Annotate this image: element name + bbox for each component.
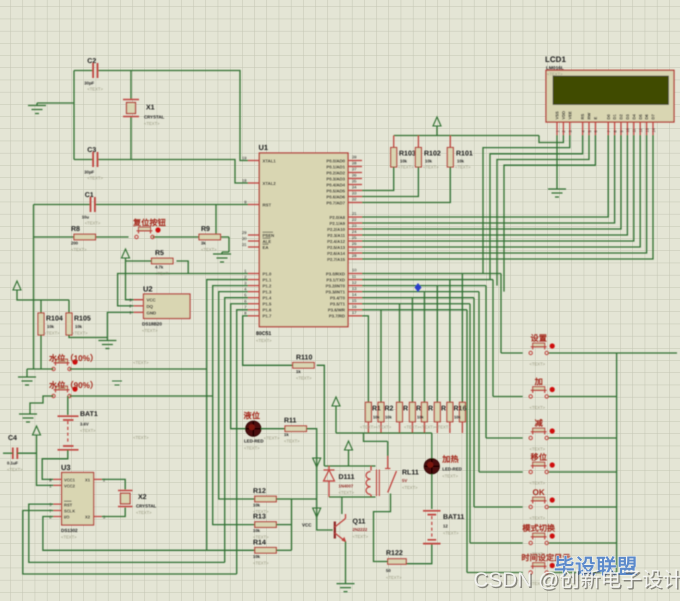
svg-text:10k: 10k (417, 415, 424, 420)
wire relay bottom rail (329, 496, 376, 498)
wire P1.5 to LED 液位 (231, 304, 248, 429)
svg-text:35: 35 (352, 179, 357, 184)
svg-text:P3.3/INT1: P3.3/INT1 (326, 289, 346, 294)
svg-text:移位: 移位 (531, 452, 547, 462)
svg-text:<TEXT>: <TEXT> (85, 221, 101, 226)
wire bus to LCD VDD (539, 135, 563, 143)
svg-text:R5: R5 (155, 250, 164, 257)
svg-text:P2.7/A15: P2.7/A15 (327, 257, 346, 262)
svg-text:OK: OK (533, 488, 545, 497)
svg-text:ALE: ALE (263, 239, 272, 244)
svg-text:P3.6/WR: P3.6/WR (328, 308, 346, 313)
svg-text:X2: X2 (138, 494, 147, 501)
svg-text:D2: D2 (619, 114, 624, 120)
wire crystal X1 branch (130, 71, 132, 100)
wire U2 DQ to P1.0 (118, 274, 248, 306)
svg-text:P0.1/AD1: P0.1/AD1 (326, 164, 345, 169)
svg-text:15: 15 (352, 298, 357, 303)
svg-text:R103: R103 (399, 151, 416, 158)
svg-text:R: R (403, 406, 408, 413)
svg-text:29: 29 (242, 230, 247, 235)
svg-text:BAT11: BAT11 (443, 514, 464, 521)
wire 10% left to ground (27, 368, 54, 370)
svg-text:7: 7 (607, 130, 611, 132)
svg-text:R101: R101 (456, 151, 473, 158)
wire button OK row (474, 506, 523, 508)
resistor R103 (393, 136, 395, 148)
svg-text:80C51: 80C51 (256, 331, 271, 337)
svg-text:R12: R12 (253, 488, 266, 495)
svg-text:16: 16 (352, 304, 357, 309)
ground left of BAT1 upper (18, 377, 36, 385)
svg-text:CRYSTAL: CRYSTAL (136, 504, 157, 509)
wire P3.3 to R5b and 移位 (362, 291, 479, 293)
relay contact (387, 441, 389, 456)
wire crystal X2 to U3 X2 pin (102, 508, 126, 517)
svg-text:12: 12 (443, 524, 448, 529)
svg-text:10k: 10k (457, 159, 465, 164)
push button 复位按钮 (135, 235, 138, 238)
svg-text:P1.7: P1.7 (263, 314, 272, 319)
svg-text:5V: 5V (402, 478, 407, 483)
svg-text:D0: D0 (606, 114, 611, 120)
svg-text:R122: R122 (386, 550, 403, 557)
arrow down lower (313, 508, 321, 517)
svg-text:17: 17 (352, 310, 357, 315)
svg-text:DQ: DQ (147, 304, 154, 309)
wire R102 to P0.6 (362, 167, 418, 197)
svg-text:X2: X2 (85, 515, 91, 520)
svg-text:3k: 3k (201, 241, 206, 246)
svg-text:EA: EA (263, 245, 269, 250)
svg-text:RST: RST (64, 502, 73, 507)
wire resistor bank bottom bus (336, 432, 432, 434)
svg-text:10: 10 (352, 268, 357, 273)
svg-text:D6: D6 (644, 114, 649, 120)
svg-text:R104: R104 (46, 316, 63, 323)
svg-text:<TEXT>: <TEXT> (201, 247, 217, 252)
svg-text:1k: 1k (296, 369, 301, 374)
svg-text:D7: D7 (651, 114, 656, 120)
svg-text:C4: C4 (8, 435, 17, 442)
svg-text:14: 14 (352, 292, 357, 297)
wire U2 GND to ground (107, 312, 133, 340)
capacitor C1 (91, 197, 95, 212)
wire P3.4 to R4 and OK button (362, 297, 474, 299)
wire relay top rail (348, 453, 350, 466)
svg-text:<TEXT>: <TEXT> (530, 447, 546, 452)
svg-text:2: 2 (562, 130, 566, 132)
svg-text:28: 28 (352, 253, 357, 258)
svg-text:30pF: 30pF (84, 81, 94, 86)
resistor R4 (409, 402, 415, 422)
wire reset button row (34, 236, 75, 238)
svg-text:R9: R9 (201, 226, 210, 233)
resistor R16 (459, 402, 465, 422)
svg-text:P1.1: P1.1 (263, 277, 272, 282)
svg-text:12: 12 (352, 280, 357, 285)
relay RL11 coil (366, 472, 371, 495)
wire LCD VSS to ground (556, 135, 558, 189)
svg-text:<TEXT>: <TEXT> (443, 531, 459, 536)
chip U3 DS1302 (62, 473, 94, 526)
svg-text:复位按钮: 复位按钮 (132, 218, 167, 228)
svg-text:P2.2/A10: P2.2/A10 (327, 227, 346, 232)
svg-text:<TEXT>: <TEXT> (136, 510, 152, 515)
wire U3 RST to P1.4 (29, 504, 225, 562)
wire BAT1 to U3 VCC1 (42, 450, 68, 479)
crystal X1 (123, 100, 139, 117)
wire button 加 row (493, 396, 523, 398)
resistor R110 (293, 363, 315, 369)
svg-text:R1: R1 (372, 406, 381, 413)
resistor R9 (199, 234, 221, 240)
diode D111 (328, 466, 330, 470)
svg-text:VSS: VSS (555, 111, 560, 119)
wire RST junction vertical (215, 205, 217, 238)
push button 水位90% (52, 394, 55, 397)
svg-text:39: 39 (352, 155, 357, 160)
junction marker (415, 283, 422, 292)
wire Q11 collector (341, 497, 343, 514)
wire R101 to P0.7 (362, 167, 450, 203)
svg-text:10k: 10k (253, 503, 261, 508)
wire VCC to U2 pin3 (126, 261, 134, 300)
svg-text:10k: 10k (400, 159, 408, 164)
svg-text:VCC1: VCC1 (64, 478, 76, 483)
wire P2 bus to LCD data (362, 135, 608, 217)
svg-text:34: 34 (352, 185, 357, 190)
wire BAT11 to R122 (426, 545, 432, 564)
wire R5 right down to P1.0 (172, 260, 174, 262)
chip U2 DS18B20 (144, 294, 191, 319)
svg-text:23: 23 (352, 223, 357, 228)
push button 水位10% (52, 367, 55, 370)
svg-text:<TEXT>: <TEXT> (353, 534, 369, 539)
svg-text:LED-RED: LED-RED (442, 466, 462, 471)
svg-text:10k: 10k (253, 554, 261, 559)
svg-text:38: 38 (352, 161, 357, 166)
svg-text:<TEXT>: <TEXT> (133, 435, 149, 440)
svg-text:10k: 10k (425, 159, 433, 164)
svg-text:P0.4/AD4: P0.4/AD4 (326, 182, 345, 187)
svg-text:P2.5/A13: P2.5/A13 (327, 245, 346, 250)
push button 设置 (529, 351, 532, 354)
wire R122 right lead (406, 563, 426, 565)
wire R122 left lead (378, 561, 388, 563)
svg-text:X1: X1 (85, 478, 91, 483)
svg-text:<TEXT>: <TEXT> (256, 338, 272, 343)
svg-text:C3: C3 (87, 147, 96, 154)
U1 right pins P3 (348, 273, 362, 275)
svg-text:P3.5/T1: P3.5/T1 (330, 302, 346, 307)
wire P3.6 to R2 and button (362, 309, 467, 311)
svg-text:<TEXT>: <TEXT> (7, 467, 23, 472)
svg-text:U3: U3 (61, 463, 71, 472)
svg-text:<TEXT>: <TEXT> (398, 165, 414, 170)
svg-text:VCC: VCC (302, 523, 312, 528)
svg-text:10k: 10k (385, 415, 392, 420)
svg-text:3.6V: 3.6V (80, 422, 89, 427)
svg-text:10k: 10k (47, 324, 55, 329)
svg-text:12: 12 (639, 128, 643, 132)
push button 模式切换 (529, 541, 532, 544)
svg-text:<TEXT>: <TEXT> (133, 360, 149, 365)
wire P1.7 to R110 (243, 316, 293, 365)
svg-text:<TEXT><TEXT>: <TEXT><TEXT> (360, 425, 392, 430)
ground top-left (37, 102, 74, 104)
wire VCC to U3 VCC2 (37, 438, 54, 485)
svg-text:<TEXT>: <TEXT> (253, 560, 269, 565)
U1 right pins P2 (348, 216, 362, 218)
wire R5 left to VCC stem (126, 260, 152, 262)
resistor R105 (66, 313, 72, 335)
svg-text:1k: 1k (284, 432, 289, 437)
svg-text:P3.2/INT0: P3.2/INT0 (326, 283, 346, 288)
wire 90% left to ground (30, 396, 54, 414)
svg-text:10k: 10k (75, 324, 83, 329)
U1 left pins (248, 160, 259, 162)
svg-text:<TEXT>: <TEXT> (530, 362, 546, 367)
svg-text:D3: D3 (625, 114, 630, 120)
svg-text:2N2222: 2N2222 (353, 527, 368, 532)
svg-text:加: 加 (534, 378, 543, 387)
push button 加 (529, 395, 532, 398)
wire P1.2 to 90% and R13 (213, 286, 255, 525)
svg-text:10k: 10k (373, 415, 380, 420)
svg-text:水位（90%）: 水位（90%） (48, 380, 98, 390)
ground under Q11 (337, 584, 355, 592)
wire R105 to ground rail (69, 335, 107, 338)
resistor R8 (74, 234, 96, 240)
svg-text:P1.4: P1.4 (263, 296, 272, 301)
svg-text:<TEXT>: <TEXT> (264, 436, 280, 441)
wire relay contact top to bank bus (364, 433, 388, 441)
led 加热 (431, 433, 433, 459)
svg-text:3: 3 (569, 130, 573, 132)
resistor R122 (388, 559, 407, 564)
svg-text:减: 减 (535, 418, 544, 428)
svg-text:XTAL2: XTAL2 (263, 181, 277, 186)
svg-text:P2.3/A11: P2.3/A11 (327, 233, 345, 238)
wire U3 SCLK to P1.6 (23, 511, 237, 575)
wire relay contact to R122 (374, 494, 391, 562)
wire 10% right to P1.1 (70, 368, 207, 370)
svg-text:<TEXT>: <TEXT> (423, 165, 439, 170)
svg-text:P1.3: P1.3 (263, 289, 272, 294)
svg-text:R: R (428, 406, 433, 413)
svg-text:<TEXT>: <TEXT> (386, 575, 402, 580)
ground lower left (19, 414, 37, 422)
svg-text:RS: RS (580, 114, 585, 120)
svg-text:<TEXT><TEXT><TEXT>: <TEXT><TEXT><TEXT> (404, 425, 451, 430)
svg-text:13: 13 (352, 286, 357, 291)
svg-text:10u: 10u (82, 215, 90, 220)
svg-text:1: 1 (556, 130, 560, 132)
svg-text:I/O: I/O (64, 515, 70, 520)
resistor R101 (449, 136, 451, 148)
wire P3.5 to R3 and button (362, 303, 470, 305)
wire R110 right down (313, 364, 315, 366)
svg-text:P0.5/AD5: P0.5/AD5 (326, 188, 345, 193)
svg-text:GND: GND (147, 310, 157, 315)
wire P1.1 to 10% and R14 rail (207, 280, 248, 551)
resistor R6 (434, 402, 440, 422)
svg-text:C1: C1 (85, 192, 94, 199)
svg-text:<TEXT>: <TEXT> (71, 247, 87, 252)
svg-text:36: 36 (352, 173, 357, 178)
resistor R104 (38, 313, 44, 335)
svg-text:P1.2: P1.2 (263, 283, 272, 288)
svg-text:<TEXT>: <TEXT> (339, 490, 355, 495)
svg-text:XTAL1: XTAL1 (263, 158, 277, 163)
svg-text:P0.0/AD0: P0.0/AD0 (326, 158, 345, 163)
wire LCD E (504, 135, 595, 292)
resistor R5 (421, 402, 427, 422)
svg-text:14: 14 (652, 128, 656, 132)
svg-text:<TEXT>: <TEXT> (530, 405, 546, 410)
svg-text:P1.5: P1.5 (263, 302, 272, 307)
small ground mark (112, 381, 122, 385)
wire R12 R13 R14 common (291, 499, 293, 550)
wire LED to R11 (261, 428, 285, 430)
wire P3.0 to R16 and 设置 (362, 273, 501, 275)
svg-text:26: 26 (352, 241, 357, 246)
wire R12 row to Q11 net (292, 498, 317, 500)
svg-text:加热: 加热 (441, 454, 459, 464)
wire 90% right to P1.2 (70, 395, 213, 397)
svg-text:D1: D1 (612, 114, 617, 120)
svg-text:4.7k: 4.7k (155, 265, 164, 270)
svg-text:VDD: VDD (561, 111, 566, 120)
svg-text:R105: R105 (74, 316, 91, 323)
svg-text:液位: 液位 (244, 411, 260, 421)
ground under LCD (548, 189, 566, 197)
wire LED to BAT11 (431, 474, 433, 509)
wire button 设置 row (501, 352, 523, 354)
svg-text:R2: R2 (385, 406, 394, 413)
svg-text:200: 200 (71, 241, 79, 246)
svg-text:R16: R16 (454, 406, 467, 413)
svg-text:P2.0/A8: P2.0/A8 (329, 215, 345, 220)
svg-text:31: 31 (242, 242, 247, 247)
wire button 移位 row (479, 471, 523, 473)
resistor R102 (417, 136, 419, 148)
wire button 模式切换 row (470, 542, 523, 544)
svg-text:RST: RST (263, 202, 272, 207)
svg-text:5: 5 (588, 130, 592, 132)
power arrow VCC bus (433, 117, 441, 126)
svg-text:LED-RED: LED-RED (244, 439, 264, 444)
svg-text:<TEXT>: <TEXT> (87, 87, 103, 92)
ground under U2 (98, 341, 116, 349)
svg-text:33: 33 (352, 191, 357, 196)
svg-text:50: 50 (386, 568, 391, 573)
svg-text:P2.4/A12: P2.4/A12 (327, 239, 346, 244)
wire P3.1 to R7 and 加 (362, 279, 493, 281)
battery BAT1 (67, 396, 69, 415)
svg-text:30pF: 30pF (84, 170, 94, 175)
svg-text:P2.6/A14: P2.6/A14 (327, 251, 346, 256)
wire R11 right down to Q11 base (307, 429, 333, 530)
svg-text:24: 24 (352, 229, 357, 234)
svg-text:E: E (593, 117, 598, 120)
svg-text:D5: D5 (638, 114, 643, 120)
wire left rail vertical (33, 205, 35, 370)
push button 移位 (529, 470, 532, 473)
svg-text:VEE: VEE (567, 111, 572, 119)
svg-text:BAT1: BAT1 (80, 411, 98, 418)
svg-text:VCC2: VCC2 (64, 484, 76, 489)
svg-text:P3.4/T0: P3.4/T0 (330, 296, 346, 301)
svg-text:4: 4 (581, 130, 585, 132)
resistor R13 (255, 522, 276, 528)
svg-text:P0.6/AD6: P0.6/AD6 (326, 194, 345, 199)
svg-text:模式切换: 模式切换 (522, 523, 556, 533)
svg-text:R102: R102 (424, 151, 441, 158)
wire U3 IO to P1.1 and R14 (43, 517, 255, 551)
svg-text:30: 30 (242, 236, 247, 241)
svg-text:Q11: Q11 (353, 519, 366, 526)
resistor R14 (255, 548, 276, 554)
power arrow bank (332, 397, 340, 406)
resistor R7 (447, 402, 453, 422)
wire P3.7 to R1 (362, 316, 368, 402)
arrow down upper (313, 458, 321, 467)
svg-text:P0.2/AD2: P0.2/AD2 (326, 170, 345, 175)
wire C3 row to XTAL2 (74, 159, 93, 161)
wire button 时间设定显示 row (467, 572, 523, 574)
svg-text:P3.7/RD: P3.7/RD (329, 314, 345, 319)
svg-text:D111: D111 (339, 474, 355, 481)
svg-text:P3.0/RXD: P3.0/RXD (326, 271, 345, 276)
svg-text:19: 19 (242, 155, 247, 160)
wire R104 to button 10% (40, 335, 42, 369)
svg-text:设置: 设置 (531, 334, 547, 343)
wire U3 X1 to crystal X2 (102, 479, 126, 489)
svg-text:8: 8 (613, 130, 617, 132)
wire P1.3 to R12 (219, 292, 255, 499)
battery BAT11 (423, 511, 441, 515)
svg-text:<TEXT>: <TEXT> (87, 176, 103, 181)
svg-text:<TEXT>: <TEXT> (284, 439, 300, 444)
resistor R1 (365, 402, 371, 422)
svg-text:R: R (416, 406, 421, 413)
svg-text:0.1uF: 0.1uF (7, 461, 18, 466)
svg-text:10k: 10k (454, 415, 461, 420)
svg-text:21: 21 (352, 211, 357, 216)
svg-text:P0.3/AD3: P0.3/AD3 (326, 176, 345, 181)
svg-text:LCD1: LCD1 (545, 55, 566, 64)
svg-text:27: 27 (352, 247, 357, 252)
resistor R3 (397, 402, 403, 422)
svg-text:13: 13 (645, 128, 649, 132)
capacitor C2 (93, 63, 97, 78)
svg-text:VCC: VCC (147, 298, 156, 303)
wire R103 to P0.5 (362, 167, 394, 191)
svg-text:<TEXT>: <TEXT> (530, 516, 546, 521)
svg-text:<TEXT>: <TEXT> (80, 428, 96, 433)
power arrow above U3 (33, 426, 41, 435)
svg-text:<TEXT>: <TEXT> (144, 121, 160, 126)
svg-text:<TEXT>: <TEXT> (402, 485, 418, 490)
wire C2 row to XTAL1 (74, 70, 93, 72)
svg-text:P1.0: P1.0 (263, 271, 272, 276)
svg-text:RL11: RL11 (402, 470, 419, 477)
resistor R2 (378, 402, 384, 422)
svg-text:CRYSTAL: CRYSTAL (144, 115, 165, 120)
svg-text:C2: C2 (87, 58, 96, 65)
